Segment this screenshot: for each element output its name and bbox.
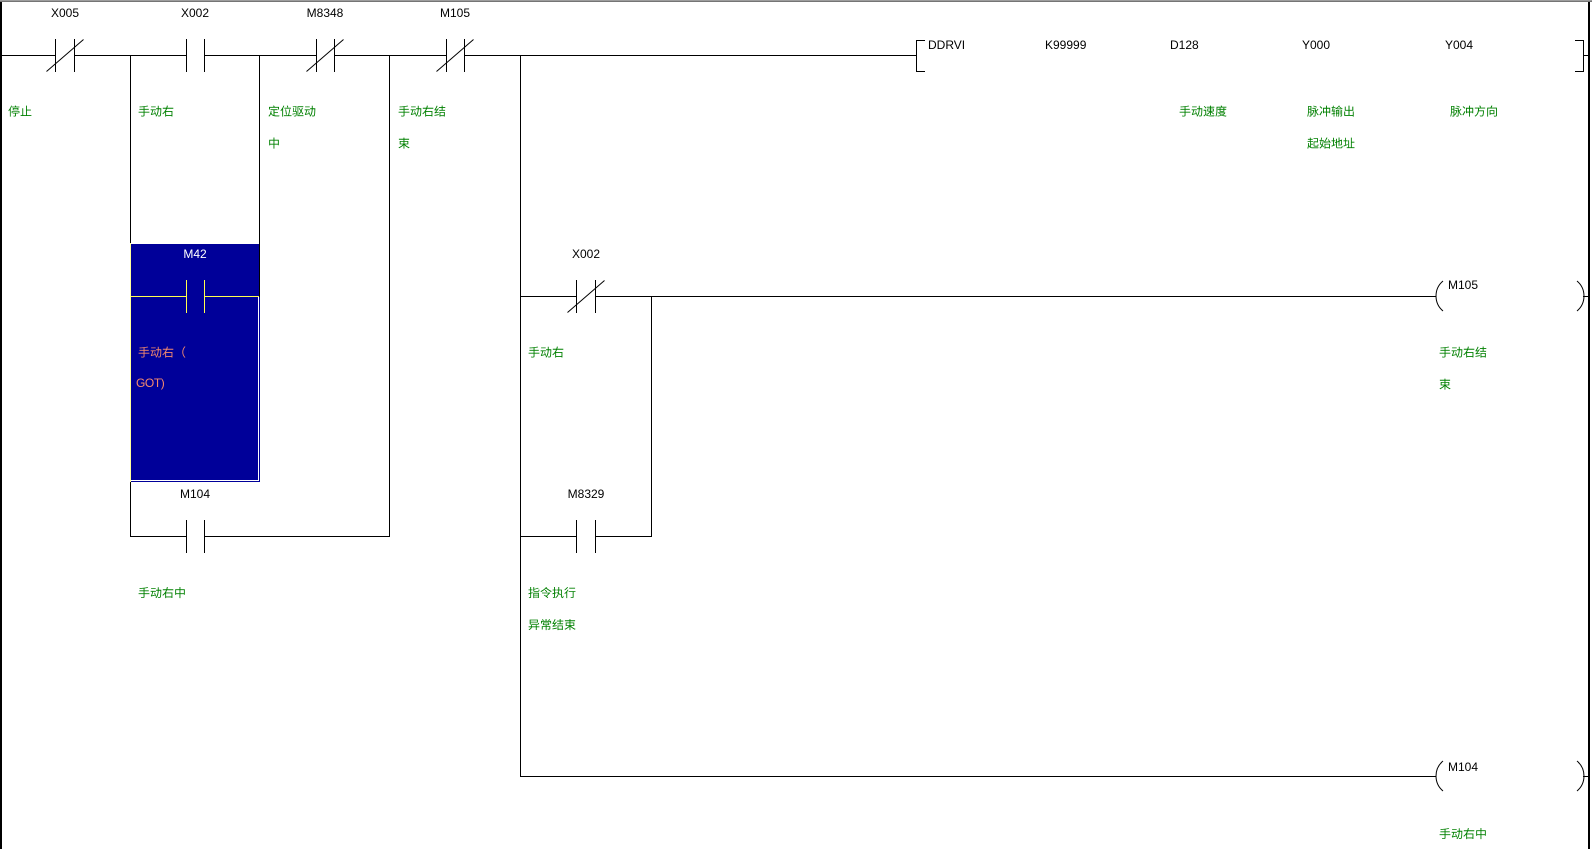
wire rung1 segment A	[2, 55, 55, 56]
wire rung1 segment B	[75, 55, 186, 56]
wire branch vertical x130	[130, 55, 131, 537]
wire rung1 segment E	[465, 55, 916, 56]
contact X005 (normally closed) 停止	[0, 0, 1592, 1]
toolbar divider bar	[0, 0, 1592, 1]
contact M8348 (normally closed) 定位驱动中	[0, 0, 1592, 1]
coil M104 手动右中	[0, 0, 1592, 1]
wire rung1 segment C	[205, 55, 316, 56]
contact M42 (normally open, highlighted) 手动右（GOT)	[0, 0, 1592, 1]
contact M105 (normally closed) 手动右结束	[0, 0, 1592, 1]
wire branch vertical x520	[520, 55, 521, 777]
coil M105 手动右结束	[0, 0, 1592, 1]
wire rung3	[520, 776, 1436, 777]
wire branch vertical x651	[651, 296, 652, 537]
selection cursor blue box	[0, 0, 1592, 1]
right power rail	[1588, 2, 1590, 849]
contact M104 (normally open) 手动右中	[0, 0, 1592, 1]
wire rung2 segment B	[596, 296, 1436, 297]
wire rung1 segment D	[335, 55, 446, 56]
left power rail	[0, 2, 2, 849]
instruction DDRVI K99999 D128 Y000 Y004	[0, 0, 1592, 1]
contact X002 rung2 (normally closed) 手动右	[0, 0, 1592, 1]
contact M8329 (normally open) 指令执行异常结束	[0, 0, 1592, 1]
wire branch vertical x390	[389, 55, 390, 537]
contact X002 (normally open) 手动右	[0, 0, 1592, 1]
wire branch vertical x259	[259, 55, 260, 297]
wire rung2 segment A	[520, 296, 576, 297]
